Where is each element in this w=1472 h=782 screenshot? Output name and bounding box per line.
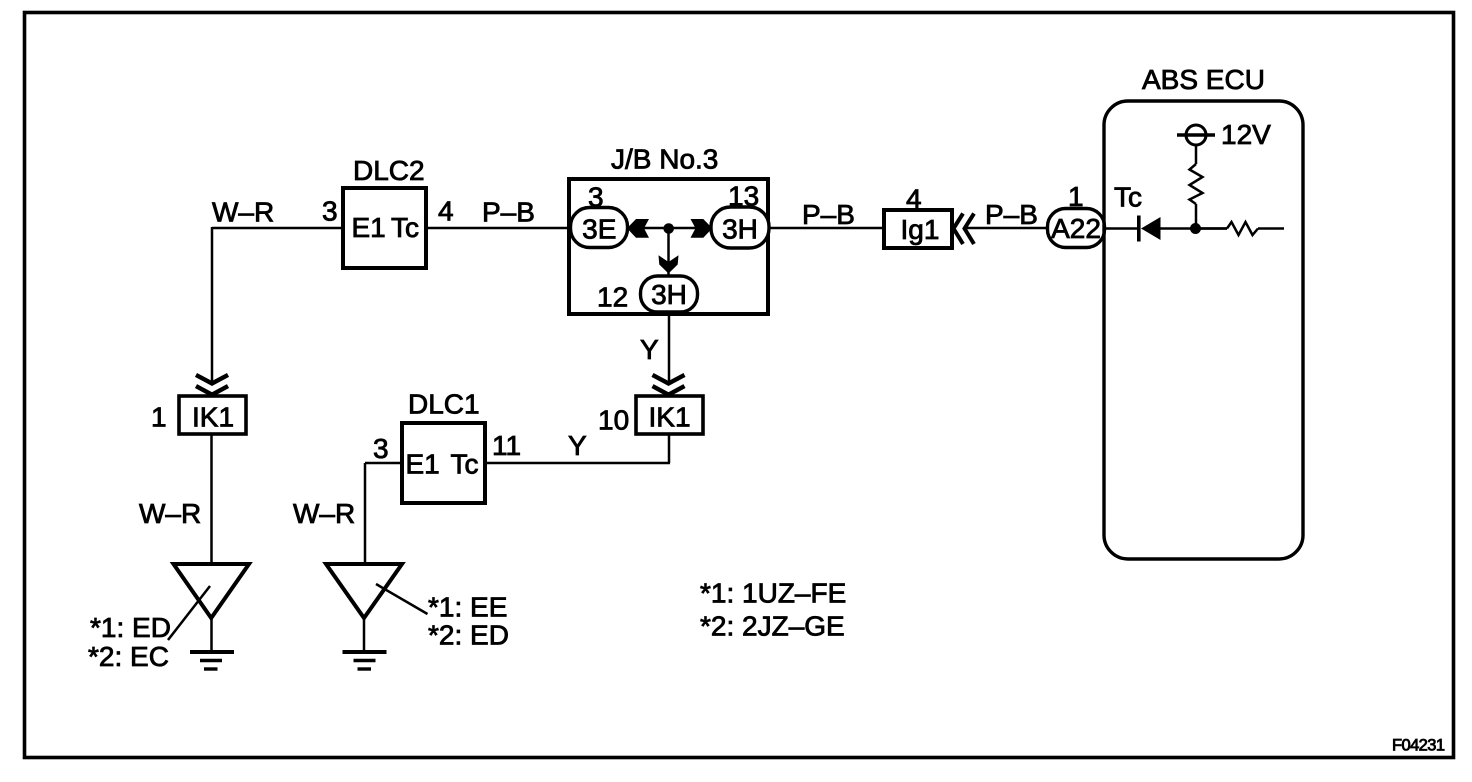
wire resistor to junction bbox=[1195, 204, 1198, 228]
wire resistor right bbox=[1258, 227, 1284, 230]
callout line (1) bbox=[168, 586, 210, 640]
svg-text:1: 1 bbox=[151, 402, 167, 433]
connector oval A22 bbox=[1048, 209, 1105, 248]
svg-text:W–R: W–R bbox=[293, 498, 355, 529]
svg-text:*2: 2JZ–GE: *2: 2JZ–GE bbox=[700, 611, 845, 642]
callout line (2) bbox=[376, 584, 428, 614]
connector chevrons at Ig1 bbox=[954, 214, 975, 245]
junction dot bbox=[1190, 223, 1201, 234]
svg-text:P–B: P–B bbox=[482, 197, 535, 228]
wire down inside J/B bbox=[667, 228, 670, 276]
diode D1 (cathode bar) bbox=[1137, 216, 1141, 242]
wire A22 into ECU bbox=[1105, 227, 1138, 230]
svg-text:*1: ED: *1: ED bbox=[90, 612, 171, 643]
ground symbol (1) bbox=[190, 650, 234, 654]
svg-text:DLC2: DLC2 bbox=[353, 155, 425, 186]
svg-text:4: 4 bbox=[438, 196, 454, 227]
wire diode to junction bbox=[1160, 227, 1227, 230]
svg-text:*2: ED: *2: ED bbox=[428, 620, 509, 651]
wire J/B 12 down bbox=[668, 312, 671, 382]
svg-text:Y: Y bbox=[568, 430, 587, 461]
connector chevrons above IK1 (1) bbox=[196, 375, 228, 395]
wire inside J/B bbox=[626, 227, 711, 230]
svg-text:*1: 1UZ–FE: *1: 1UZ–FE bbox=[700, 578, 846, 609]
connector IK1 (1) bbox=[179, 396, 246, 434]
wire DLC2 to J/B No.3 bbox=[426, 227, 569, 230]
wire DLC1 left, down to triangle bbox=[365, 463, 402, 565]
fuse Ig1 bbox=[884, 210, 952, 248]
svg-text:ABS ECU: ABS ECU bbox=[1142, 64, 1265, 95]
wire IK1 down bbox=[210, 434, 213, 565]
svg-text:F04231: F04231 bbox=[1392, 737, 1445, 755]
connector oval 3H (12) bbox=[641, 276, 698, 312]
svg-text:12V: 12V bbox=[1221, 119, 1271, 150]
svg-text:P–B: P–B bbox=[985, 199, 1038, 230]
svg-text:3E: 3E bbox=[582, 214, 616, 245]
junction dot bbox=[663, 223, 674, 234]
ECU box ABS ECU bbox=[1104, 101, 1303, 559]
svg-text:Ig1: Ig1 bbox=[901, 214, 940, 245]
wire J/B right to Ig1 bbox=[768, 227, 884, 230]
body ground triangle (1) bbox=[174, 564, 250, 618]
arrow left (toward 3E) bbox=[627, 219, 649, 238]
ground symbol (2) bbox=[343, 650, 387, 654]
svg-text:Y: Y bbox=[640, 334, 659, 365]
svg-text:*2: EC: *2: EC bbox=[88, 641, 169, 672]
connector oval 3E bbox=[571, 208, 628, 248]
svg-text:Tc: Tc bbox=[1114, 182, 1142, 213]
arrow right (toward 3H) bbox=[691, 219, 713, 238]
svg-text:P–B: P–B bbox=[802, 199, 855, 230]
svg-text:IK1: IK1 bbox=[192, 402, 234, 433]
junction block J/B No.3 bbox=[569, 179, 768, 314]
resistor R2 horizontal zigzag bbox=[1227, 222, 1258, 235]
svg-text:3: 3 bbox=[373, 433, 389, 464]
body ground triangle (2) bbox=[326, 564, 402, 618]
svg-text:W–R: W–R bbox=[212, 197, 274, 228]
arrow down (toward 3H 12) bbox=[659, 255, 679, 273]
wire triangle to ground bbox=[210, 616, 213, 651]
svg-text:E1: E1 bbox=[352, 212, 386, 243]
svg-text:Tc: Tc bbox=[391, 212, 419, 243]
svg-text:3: 3 bbox=[322, 196, 338, 227]
node: wire corner vertical down bbox=[211, 227, 214, 382]
power symbol 12V bbox=[1186, 125, 1206, 145]
wire chevron to A22 bbox=[967, 227, 1048, 230]
connector IK1 (2) bbox=[636, 396, 703, 434]
svg-text:Tc: Tc bbox=[451, 449, 479, 480]
svg-text:3H: 3H bbox=[651, 279, 687, 310]
connector oval 3H (13) bbox=[711, 207, 769, 248]
svg-text:3H: 3H bbox=[722, 214, 758, 245]
wire 12V down bbox=[1195, 145, 1198, 164]
svg-text:IK1: IK1 bbox=[648, 402, 690, 433]
svg-text:J/B No.3: J/B No.3 bbox=[611, 144, 718, 175]
resistor R1 vertical zigzag bbox=[1190, 164, 1203, 204]
connector DLC2 bbox=[343, 188, 426, 268]
svg-text:10: 10 bbox=[598, 405, 629, 436]
svg-text:A22: A22 bbox=[1051, 213, 1101, 244]
svg-text:12: 12 bbox=[597, 282, 628, 313]
svg-text:W–R: W–R bbox=[139, 498, 201, 529]
connector chevrons above IK1 (2) bbox=[653, 375, 685, 395]
svg-text:E1: E1 bbox=[406, 449, 440, 480]
svg-text:*1: EE: *1: EE bbox=[428, 592, 507, 623]
diode D1 (triangle) bbox=[1141, 217, 1161, 240]
wire triangle to ground bbox=[363, 616, 366, 651]
wire W-R horizontal to DLC2 bbox=[212, 227, 343, 230]
connector DLC1 bbox=[402, 423, 485, 503]
wire junction to resistor R2 bbox=[1196, 227, 1227, 230]
wire IK1 (2) down and left to DLC1 pin 11 bbox=[485, 434, 670, 463]
svg-text:DLC1: DLC1 bbox=[408, 389, 480, 420]
svg-text:11: 11 bbox=[492, 430, 521, 461]
